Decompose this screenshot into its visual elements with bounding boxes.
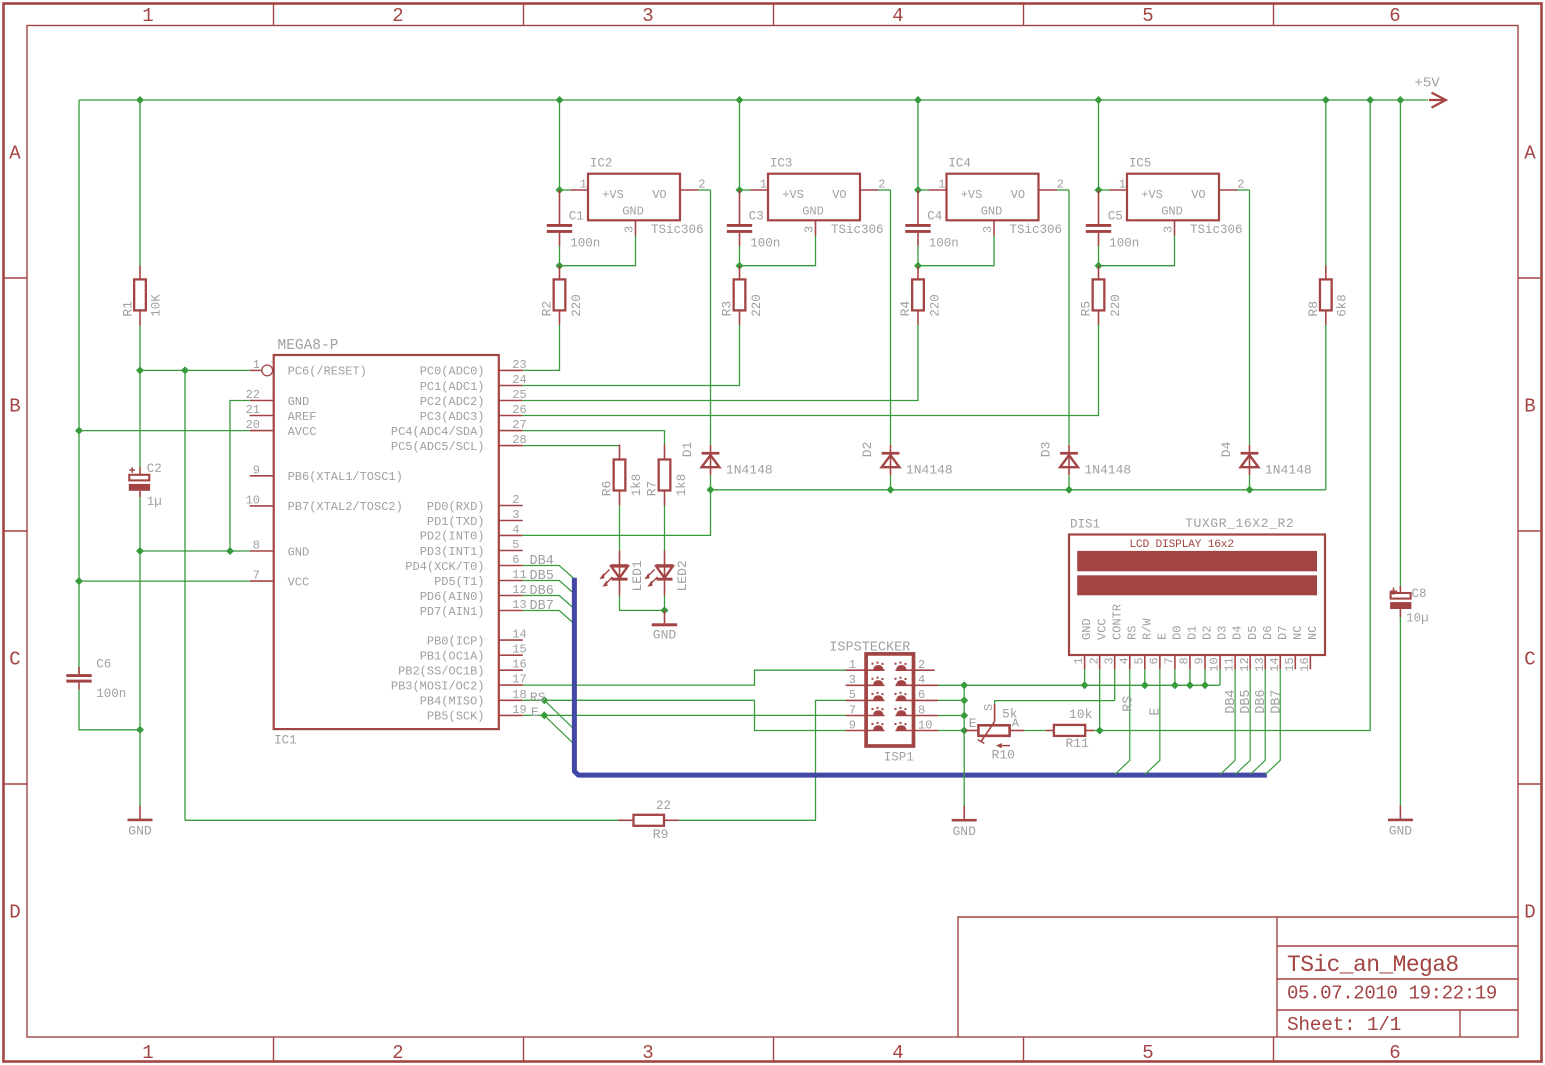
svg-text:E: E xyxy=(969,716,977,731)
svg-text:DB5: DB5 xyxy=(530,569,554,584)
wire D4 anode xyxy=(1249,475,1251,490)
node E junction xyxy=(540,711,548,719)
svg-text:3: 3 xyxy=(512,508,519,522)
wire LCD pin9 to GND row xyxy=(1204,669,1206,685)
svg-text:2: 2 xyxy=(918,658,925,672)
svg-text:R2: R2 xyxy=(540,301,555,317)
wire LCD pin7 to GND row xyxy=(1174,669,1176,685)
svg-text:15: 15 xyxy=(1283,657,1297,671)
svg-text:10µ: 10µ xyxy=(1406,612,1429,626)
wire R5 to IC1 xyxy=(523,325,1099,416)
diode D3 1N4148 xyxy=(1039,442,1132,478)
svg-text:PD5(T1): PD5(T1) xyxy=(434,575,484,589)
wire +5V to IC2 xyxy=(559,100,561,190)
wire +5V to C8 xyxy=(1399,100,1401,586)
svg-text:LED2: LED2 xyxy=(675,560,690,591)
wire DB4 from IC1 to bus xyxy=(523,566,575,580)
wire C2 to GND net xyxy=(139,497,141,551)
svg-text:VO: VO xyxy=(652,188,666,202)
sensor IC3 TSic306 xyxy=(751,157,886,238)
svg-text:NC: NC xyxy=(1306,626,1320,640)
svg-text:PB4(MISO): PB4(MISO) xyxy=(420,695,485,709)
junction +5V rail xyxy=(736,96,744,104)
svg-text:R6: R6 xyxy=(600,481,615,497)
svg-text:100n: 100n xyxy=(929,237,959,251)
svg-text:9: 9 xyxy=(849,718,856,732)
wire R8 to data bus xyxy=(1325,325,1327,490)
svg-text:16: 16 xyxy=(1298,657,1312,671)
node junction xyxy=(1141,681,1149,689)
wire cap to junction xyxy=(739,246,741,266)
svg-text:R7: R7 xyxy=(645,481,660,497)
wire MISO jog to ISP pin9 xyxy=(755,700,846,730)
title block xyxy=(958,917,1518,1037)
junction +5V rail xyxy=(556,96,564,104)
diode D2 1N4148 xyxy=(860,442,953,478)
ground GND right xyxy=(1388,806,1413,839)
wire LED1 to LED junction xyxy=(620,596,665,611)
svg-text:R4: R4 xyxy=(898,301,913,317)
resistor R1 10k xyxy=(120,100,163,326)
pin 1 GND of DIS1 xyxy=(1072,618,1094,669)
wire D2 anode xyxy=(890,475,892,490)
pin 3 PD1(TXD) of IC1 xyxy=(427,508,523,529)
svg-text:7: 7 xyxy=(849,703,856,717)
resistor R4 220 xyxy=(898,266,942,325)
svg-text:5: 5 xyxy=(1142,1042,1153,1064)
pin 8 of ISP1 xyxy=(895,703,939,717)
pin 5 R/W of DIS1 xyxy=(1132,618,1154,670)
svg-text:D3: D3 xyxy=(1216,626,1230,640)
svg-text:DIS1: DIS1 xyxy=(1070,518,1100,532)
svg-text:2: 2 xyxy=(1087,657,1101,664)
wire pin3 to junction xyxy=(1099,236,1175,266)
pin 3 of ISP1 xyxy=(846,673,885,687)
svg-text:PB2(SS/OC1B): PB2(SS/OC1B) xyxy=(398,665,484,679)
wire +5V to IC5 xyxy=(1098,100,1100,190)
pin 9 PB6(XTAL1/TOSC1) of IC1 xyxy=(250,463,403,484)
svg-text:DB5: DB5 xyxy=(1239,689,1254,713)
svg-text:IC3: IC3 xyxy=(770,157,793,171)
pin 7 VCC of IC1 xyxy=(250,569,310,590)
svg-text:C1: C1 xyxy=(569,210,584,224)
wire RESET vertical x=185 xyxy=(184,370,186,820)
node junction xyxy=(1095,262,1103,270)
pin 28 PC5(ADC5/SCL) of IC1 xyxy=(391,433,527,454)
pin 8 GND of IC1 xyxy=(250,539,310,560)
svg-text:C: C xyxy=(1524,649,1535,671)
svg-text:RS: RS xyxy=(1125,626,1139,640)
resistor R2 220 xyxy=(540,266,584,325)
wire ISP GND column down xyxy=(963,685,965,805)
svg-text:1: 1 xyxy=(938,178,945,192)
svg-text:1: 1 xyxy=(580,178,587,192)
svg-text:10k: 10k xyxy=(1069,707,1093,722)
svg-text:1k8: 1k8 xyxy=(630,474,644,497)
node junction xyxy=(1186,681,1194,689)
capacitor C5 100n xyxy=(1086,190,1139,251)
wire R4 to IC1 xyxy=(523,325,918,401)
pin 13 PD7(AIN1) of IC1 xyxy=(420,598,527,619)
node GND column junction xyxy=(960,681,968,689)
svg-text:1µ: 1µ xyxy=(147,495,162,509)
svg-text:+VS: +VS xyxy=(602,188,624,202)
svg-text:PC5(ADC5/SCL): PC5(ADC5/SCL) xyxy=(391,440,485,454)
node junction xyxy=(736,186,744,194)
svg-text:AREF: AREF xyxy=(288,410,317,424)
svg-text:3: 3 xyxy=(849,673,856,687)
node junction xyxy=(736,262,744,270)
svg-text:R11: R11 xyxy=(1066,736,1090,751)
svg-text:5: 5 xyxy=(1132,657,1146,664)
svg-text:1N4148: 1N4148 xyxy=(1265,463,1312,478)
resistor R7 1k8 xyxy=(645,445,689,506)
svg-text:220: 220 xyxy=(750,294,764,317)
pin 11 D4 of DIS1 xyxy=(1223,626,1245,672)
pin 10 D3 of DIS1 xyxy=(1208,626,1230,672)
svg-text:GND: GND xyxy=(802,205,824,219)
svg-text:14: 14 xyxy=(512,628,526,642)
svg-text:10: 10 xyxy=(246,493,260,507)
svg-text:1: 1 xyxy=(1072,657,1086,664)
svg-text:6: 6 xyxy=(1147,657,1161,664)
capacitor C3 100n xyxy=(727,190,780,251)
svg-text:3: 3 xyxy=(642,1042,653,1064)
svg-text:5: 5 xyxy=(1142,5,1153,27)
wire R6 to LED1 xyxy=(619,506,621,551)
svg-text:1k8: 1k8 xyxy=(675,474,689,497)
svg-text:PD2(INT0): PD2(INT0) xyxy=(420,530,485,544)
svg-text:R5: R5 xyxy=(1079,301,1094,317)
wire GND pin8 row xyxy=(140,550,250,552)
svg-text:GND: GND xyxy=(1080,618,1094,640)
pin 12 D5 of DIS1 xyxy=(1238,626,1260,672)
pin 14 PB0(ICP) of IC1 xyxy=(427,628,527,649)
pin 15 NC of DIS1 xyxy=(1283,626,1305,672)
pin 5 of ISP1 xyxy=(846,688,885,702)
wire GND net down xyxy=(139,551,141,730)
pin 11 PD5(T1) of IC1 xyxy=(434,568,527,589)
svg-text:D1: D1 xyxy=(680,441,695,457)
svg-text:1: 1 xyxy=(849,658,856,672)
wire 1-wire data bus horizontal xyxy=(711,489,1326,491)
node RESET junctions xyxy=(136,366,144,374)
capacitor C8 10u electrolytic xyxy=(1390,586,1429,626)
junction +5V rail xyxy=(1396,96,1404,104)
svg-text:LCD DISPLAY 16x2: LCD DISPLAY 16x2 xyxy=(1129,539,1233,551)
pin 1 PC6(/RESET) of IC1 xyxy=(250,358,367,379)
wire IC3 VO output xyxy=(878,189,890,191)
wire pin3 to junction xyxy=(560,236,636,266)
wire to pin1 xyxy=(560,189,571,191)
resistor R6 1k8 xyxy=(600,445,644,506)
svg-text:PD0(RXD): PD0(RXD) xyxy=(427,500,485,514)
node junction xyxy=(1201,681,1209,689)
svg-text:VO: VO xyxy=(1011,188,1025,202)
wire LCD pin11 DB4 to bus xyxy=(1220,669,1235,774)
wire D1 anode xyxy=(710,475,712,490)
connector ISP1 ISPSTECKER xyxy=(829,641,913,765)
wire cap to junction xyxy=(1098,246,1100,266)
svg-text:C5: C5 xyxy=(1108,210,1123,224)
node GND junctions xyxy=(136,547,144,555)
wire LCD pin14 DB7 to bus xyxy=(1265,669,1280,774)
pin 18 PB4(MISO) of IC1 xyxy=(420,688,527,709)
svg-text:PB7(XTAL2/TOSC2): PB7(XTAL2/TOSC2) xyxy=(288,500,403,514)
pin 4 RS of DIS1 xyxy=(1117,626,1139,670)
wire ISP to GND column xyxy=(938,699,964,701)
wire cap to junction xyxy=(559,246,561,266)
wire to pin1 xyxy=(918,189,929,191)
wire IC4 VO output xyxy=(1057,189,1069,191)
svg-text:DB6: DB6 xyxy=(530,584,554,599)
svg-text:PB0(ICP): PB0(ICP) xyxy=(427,634,485,648)
wire +5V to IC3 xyxy=(739,100,741,190)
svg-text:+VS: +VS xyxy=(961,188,983,202)
svg-text:IC2: IC2 xyxy=(590,157,613,171)
pin 17 PB3(MOSI/OC2) of IC1 xyxy=(391,673,527,694)
node AVCC junction xyxy=(75,427,83,435)
svg-text:3: 3 xyxy=(623,226,637,233)
bus LCD data xyxy=(574,578,1267,775)
svg-text:PC0(ADC0): PC0(ADC0) xyxy=(420,365,485,379)
svg-text:6k8: 6k8 xyxy=(1336,294,1350,317)
svg-text:ISPSTECKER: ISPSTECKER xyxy=(829,641,910,656)
svg-text:A: A xyxy=(9,143,21,165)
node LED GND junction xyxy=(661,606,669,614)
wire R9 to ISP pin5 xyxy=(679,700,846,820)
svg-text:6: 6 xyxy=(918,688,925,702)
capacitor C4 100n xyxy=(905,190,958,251)
svg-text:NC: NC xyxy=(1291,626,1305,640)
svg-text:R8: R8 xyxy=(1306,301,1321,317)
wire LCD pin2 VCC xyxy=(1099,669,1101,730)
pin 20 AVCC of IC1 xyxy=(246,418,317,439)
svg-text:2: 2 xyxy=(512,493,519,507)
svg-text:GND: GND xyxy=(1161,205,1183,219)
svg-text:3: 3 xyxy=(1102,657,1116,664)
svg-text:LED1: LED1 xyxy=(630,560,645,591)
resistor R8 6k8 pullup xyxy=(1306,100,1349,325)
pin 1 of ISP1 xyxy=(846,658,885,672)
pin 13 D6 of DIS1 xyxy=(1253,626,1275,672)
svg-text:PC1(ADC1): PC1(ADC1) xyxy=(420,380,485,394)
pin 19 PB5(SCK) of IC1 xyxy=(427,703,527,724)
capacitor C1 100n xyxy=(547,190,600,251)
junction +5V rail xyxy=(1095,96,1103,104)
pin 16 PB2(SS/OC1B) of IC1 xyxy=(398,658,527,679)
pin 25 PC2(ADC2) of IC1 xyxy=(420,388,527,409)
svg-text:GND: GND xyxy=(288,545,310,559)
wire LCD pin6 E to bus xyxy=(1145,669,1160,774)
wire ISP to GND column xyxy=(938,715,964,717)
wire IC1 to R6 xyxy=(523,445,620,446)
svg-text:GND: GND xyxy=(622,205,644,219)
svg-text:4: 4 xyxy=(512,523,519,537)
svg-text:CONTR: CONTR xyxy=(1110,604,1124,640)
svg-text:10: 10 xyxy=(918,718,932,732)
svg-text:9: 9 xyxy=(1193,657,1207,664)
svg-text:4: 4 xyxy=(918,673,925,687)
svg-text:C6: C6 xyxy=(96,658,111,672)
svg-text:D5: D5 xyxy=(1246,626,1260,640)
wire to pin1 xyxy=(740,189,751,191)
wire ISP to GND column xyxy=(938,730,964,732)
svg-text:4: 4 xyxy=(892,5,903,27)
svg-text:D0: D0 xyxy=(1171,626,1185,640)
wire ISP to GND column xyxy=(938,684,964,686)
wire VO to D1 xyxy=(710,190,712,445)
pin 7 of ISP1 xyxy=(846,703,885,717)
svg-text:1: 1 xyxy=(760,178,767,192)
svg-text:8: 8 xyxy=(918,703,925,717)
svg-text:1: 1 xyxy=(1119,178,1126,192)
LED LED1 xyxy=(601,551,645,596)
svg-text:DB7: DB7 xyxy=(1269,689,1284,713)
svg-text:16: 16 xyxy=(512,658,526,672)
node junction xyxy=(1171,681,1179,689)
svg-text:D6: D6 xyxy=(1261,626,1275,640)
svg-text:9: 9 xyxy=(253,463,260,477)
svg-text:C8: C8 xyxy=(1412,587,1427,601)
wire LCD pin4 RS to bus xyxy=(1115,669,1130,774)
pin 8 D1 of DIS1 xyxy=(1178,626,1200,670)
svg-text:AVCC: AVCC xyxy=(288,425,317,439)
wire DB6 from IC1 to bus xyxy=(523,596,575,610)
capacitor C6 100n xyxy=(66,658,126,702)
wire R10 to R11 xyxy=(1024,730,1046,732)
node VCC junction xyxy=(75,577,83,585)
sensor IC2 TSic306 xyxy=(571,157,706,238)
svg-text:Sheet: 1/1: Sheet: 1/1 xyxy=(1287,1014,1401,1036)
+5V supply arrow xyxy=(1429,93,1446,108)
pin 10 PB7(XTAL2/TOSC2) of IC1 xyxy=(246,493,403,514)
capacitor C2 1u electrolytic xyxy=(129,370,162,509)
node junction xyxy=(1081,681,1089,689)
wire R3 to IC1 xyxy=(523,325,740,386)
wire LED2 down xyxy=(664,596,666,611)
svg-text:R3: R3 xyxy=(720,301,735,317)
wire D3 anode xyxy=(1068,475,1070,490)
node VCC LCD junction xyxy=(1096,727,1104,735)
svg-text:D3: D3 xyxy=(1039,442,1054,458)
svg-text:220: 220 xyxy=(1109,294,1123,317)
resistor R9 22 xyxy=(619,799,680,842)
pin 6 of ISP1 xyxy=(895,688,939,702)
svg-text:+VS: +VS xyxy=(782,188,804,202)
svg-text:D: D xyxy=(9,902,20,924)
svg-text:R1: R1 xyxy=(120,301,135,317)
diode D1 1N4148 xyxy=(680,441,773,477)
wire +5V to IC4 xyxy=(917,100,919,190)
wire R2 to IC1 xyxy=(523,325,560,371)
sensor IC4 TSic306 xyxy=(929,157,1064,238)
svg-text:D2: D2 xyxy=(860,442,875,458)
svg-text:10K: 10K xyxy=(150,294,164,317)
svg-text:100n: 100n xyxy=(1109,237,1139,251)
svg-text:TSic306: TSic306 xyxy=(1190,223,1243,237)
pin 21 AREF of IC1 xyxy=(246,403,317,424)
svg-text:1N4148: 1N4148 xyxy=(1084,463,1131,478)
svg-text:GND: GND xyxy=(288,395,310,409)
svg-text:IC5: IC5 xyxy=(1129,157,1152,171)
svg-text:DB4: DB4 xyxy=(530,554,554,569)
pin 14 D7 of DIS1 xyxy=(1268,626,1290,672)
wire AVCC pin20 xyxy=(79,430,250,432)
svg-text:TSic306: TSic306 xyxy=(651,223,704,237)
pin 15 PB1(OC1A) of IC1 xyxy=(420,643,527,664)
wire pin3 to junction xyxy=(918,236,994,266)
svg-text:+5V: +5V xyxy=(1415,76,1441,92)
resistor R3 220 xyxy=(720,266,764,325)
svg-text:21: 21 xyxy=(246,403,260,417)
svg-text:D7: D7 xyxy=(1276,626,1290,640)
svg-text:PD1(TXD): PD1(TXD) xyxy=(427,515,485,529)
wire R10 wiper to LCD CONTR xyxy=(995,701,1115,704)
wire LCD pin13 DB6 to bus xyxy=(1250,669,1265,774)
svg-text:D1: D1 xyxy=(1186,626,1200,640)
svg-text:PB1(OC1A): PB1(OC1A) xyxy=(420,650,485,664)
node RS junction xyxy=(540,696,548,704)
svg-text:RS: RS xyxy=(1122,696,1137,712)
svg-text:8: 8 xyxy=(1178,657,1192,664)
junction +5V rail xyxy=(914,96,922,104)
wire data to IC1 PD2 xyxy=(523,490,711,536)
svg-text:100n: 100n xyxy=(750,237,780,251)
svg-text:3: 3 xyxy=(1162,226,1176,233)
pin 16 NC of DIS1 xyxy=(1298,626,1320,672)
svg-text:VO: VO xyxy=(1191,188,1205,202)
svg-text:PB3(MOSI/OC2): PB3(MOSI/OC2) xyxy=(391,679,485,693)
pin 10 of ISP1 xyxy=(895,718,939,732)
svg-text:220: 220 xyxy=(570,294,584,317)
svg-text:E: E xyxy=(1149,708,1164,716)
pin 6 E of DIS1 xyxy=(1147,633,1169,670)
svg-text:6: 6 xyxy=(1389,5,1400,27)
wire LCD pin1 to GND row xyxy=(1084,669,1086,685)
ground GND left xyxy=(128,806,153,839)
svg-text:PD3(INT1): PD3(INT1) xyxy=(420,545,485,559)
svg-text:5: 5 xyxy=(849,688,856,702)
svg-text:S: S xyxy=(982,704,996,711)
node GND column junction xyxy=(960,696,968,704)
svg-text:D4: D4 xyxy=(1231,626,1245,640)
node junction xyxy=(1095,186,1103,194)
ground GND ISP xyxy=(952,806,977,839)
wire C8 to GND xyxy=(1399,617,1401,806)
svg-text:A: A xyxy=(1524,143,1536,165)
node junction xyxy=(556,186,564,194)
wire DB5 from IC1 to bus xyxy=(523,581,575,595)
wire VO to D4 xyxy=(1249,190,1251,445)
svg-text:5: 5 xyxy=(512,538,519,552)
pin 2 PD0(RXD) of IC1 xyxy=(427,493,523,514)
svg-text:8: 8 xyxy=(253,539,260,553)
svg-text:GND: GND xyxy=(128,823,152,838)
pin 7 D0 of DIS1 xyxy=(1163,626,1185,670)
svg-text:MEGA8-P: MEGA8-P xyxy=(278,338,339,354)
pin 6 PD4(XCK/T0) of IC1 xyxy=(405,553,523,574)
wire DB7 from IC1 to bus xyxy=(523,611,575,625)
wire IC5 VO output xyxy=(1237,189,1249,191)
svg-text:PC3(ADC3): PC3(ADC3) xyxy=(420,410,485,424)
pin 22 GND of IC1 xyxy=(246,388,310,409)
pin 9 of ISP1 xyxy=(846,718,885,732)
wire LCD pin10 to GND row xyxy=(1219,669,1221,685)
svg-text:GND: GND xyxy=(1389,823,1413,838)
wire PC6 reset net xyxy=(140,369,250,371)
pin 12 PD6(AIN0) of IC1 xyxy=(420,583,527,604)
